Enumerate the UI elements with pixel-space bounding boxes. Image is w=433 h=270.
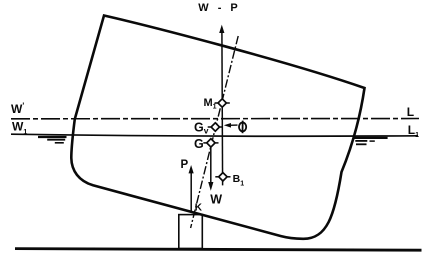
svg-text:Gv: Gv xyxy=(194,120,209,135)
reaction arrow P (up at K) xyxy=(190,173,192,212)
svg-text:W: W xyxy=(210,193,222,207)
waterline W1L1 (solid) xyxy=(11,134,418,136)
point G diamond xyxy=(203,139,218,147)
vertical buoyancy force line through M1 and B1 xyxy=(221,30,224,185)
keel block xyxy=(179,215,203,249)
arrowhead W-P (up) xyxy=(219,25,224,33)
svg-text:B1: B1 xyxy=(233,173,245,188)
svg-text:P: P xyxy=(181,159,189,171)
svg-text:W': W' xyxy=(11,102,24,117)
point Gv diamond xyxy=(208,123,223,131)
water surface marks left xyxy=(38,136,67,138)
label phi xyxy=(239,121,246,134)
waterline W'L (dash-dot) xyxy=(11,118,419,120)
point M1 diamond xyxy=(215,99,230,107)
svg-text:K: K xyxy=(195,203,203,214)
point B1 diamond xyxy=(215,173,230,181)
svg-text:G: G xyxy=(194,137,204,151)
hull outline xyxy=(71,16,364,239)
svg-text:W - P: W - P xyxy=(198,2,241,14)
svg-text:L1: L1 xyxy=(408,123,419,139)
svg-text:L: L xyxy=(407,105,414,119)
water surface marks right xyxy=(355,137,388,139)
inclined centreline K-G-M (dash-dot) xyxy=(191,36,239,228)
ground line xyxy=(15,249,422,251)
svg-text:M1: M1 xyxy=(204,97,217,111)
weight arrow W (down from G) xyxy=(210,143,212,183)
phi angle arrow xyxy=(229,124,238,126)
